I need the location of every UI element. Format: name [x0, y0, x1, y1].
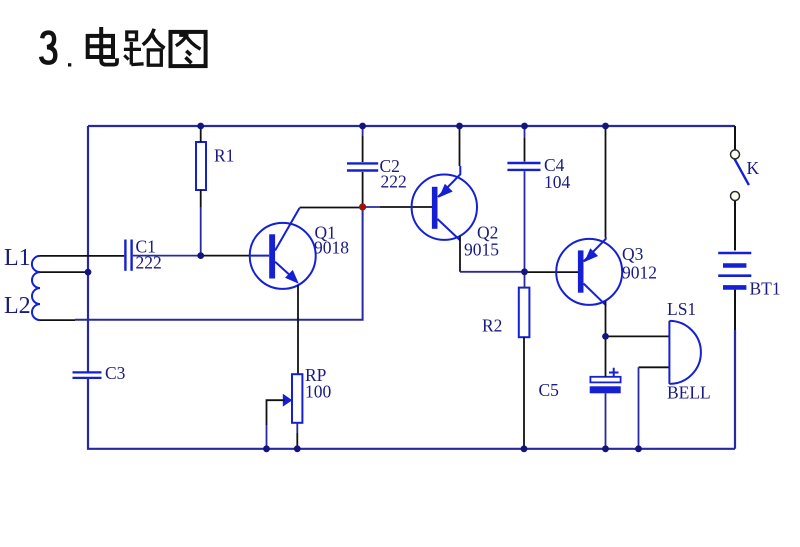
junction node: C4 top: [521, 123, 528, 130]
label R1: [214, 146, 234, 166]
label Q1: [315, 223, 336, 243]
junction node D: Q3 collector/C5/bell: [602, 333, 609, 340]
label Q2 value 9015: [464, 240, 499, 260]
wire: bell lower lead: [639, 367, 670, 449]
wire: RP bottom lead: [296, 423, 298, 449]
svg-text:9015: 9015: [464, 240, 499, 260]
capacitor C1: [125, 240, 131, 271]
svg-text:Q3: Q3: [622, 244, 644, 264]
wire: L1 top to C1: [40, 255, 124, 257]
svg-text:C5: C5: [539, 380, 560, 400]
wire: switch to battery lead: [734, 201, 736, 251]
label C4 value 104: [544, 172, 571, 192]
speaker LS1 bell: [669, 321, 701, 384]
label RP value 100: [305, 382, 332, 402]
label C1: [136, 237, 156, 257]
label Q3: [622, 244, 644, 264]
wire: RP wiper: [267, 400, 285, 449]
capacitor C5 electrolytic: [590, 368, 621, 394]
wire: Q2 collector down: [459, 236, 461, 272]
wire: Q2 emitter up to rail: [459, 126, 461, 166]
svg-text:222: 222: [136, 253, 162, 273]
junction node: Q3 emitter rail: [602, 123, 609, 130]
svg-text:BELL: BELL: [667, 383, 711, 403]
junction node: bell bottom: [635, 445, 642, 452]
label R2: [482, 316, 502, 336]
svg-text:222: 222: [381, 172, 407, 192]
title hanzi 路: [124, 29, 165, 65]
wire: C2 top lead: [362, 126, 364, 162]
potentiometer RP: [283, 374, 303, 423]
title hanzi 图: [171, 32, 206, 66]
junction node C: Q2 collector/R2/Q3 base: [521, 268, 528, 275]
svg-text:L2: L2: [4, 293, 31, 319]
label BELL: [667, 383, 711, 403]
junction node: RP wiper bottom: [263, 445, 270, 452]
capacitor C2: [347, 163, 378, 170]
svg-text:100: 100: [305, 382, 332, 402]
capacitor C3: [73, 372, 102, 378]
inductor L2: [32, 272, 40, 320]
transistor Q2: [412, 166, 477, 241]
wire: L1/L2 tap to left rail: [40, 271, 88, 273]
wire: top rail: [88, 125, 735, 127]
wire: left rail lower (below C3): [88, 377, 735, 449]
inductor L1: [32, 256, 40, 272]
junction node B: maroon dot C2/Q1/Q2: [359, 203, 366, 210]
wire: battery bottom lead: [734, 290, 736, 330]
wire: C1 to node A: [133, 255, 201, 257]
capacitor C4: [507, 163, 540, 170]
wire: R1 bottom lead: [200, 190, 202, 256]
svg-text:LS1: LS1: [667, 299, 696, 319]
wire: R2 top lead: [524, 272, 526, 288]
label Q1 value 9018: [314, 238, 349, 258]
wire: node C to Q3 base: [525, 271, 579, 273]
transistor Q1: [250, 208, 316, 289]
wire: node D to bell: [606, 335, 669, 337]
svg-text:C3: C3: [105, 363, 126, 383]
resistor R1: [196, 142, 206, 190]
junction node A: C1/R1/Q1 base: [197, 252, 204, 259]
label L1: [4, 245, 31, 271]
label C3: [105, 363, 126, 383]
label K: [747, 158, 760, 178]
wire: C2 bottom lead: [362, 172, 364, 206]
resistor R2: [519, 288, 530, 338]
junction node: coil tap on left rail: [85, 269, 92, 276]
wire: C5 bottom lead: [605, 393, 607, 449]
wire: Q1 emitter down to RP: [297, 285, 299, 374]
svg-text:BT1: BT1: [750, 279, 781, 299]
junction node: R1 top: [197, 123, 204, 130]
label BT1: [750, 279, 781, 299]
wire: C4 top lead: [524, 126, 526, 162]
svg-text:R1: R1: [214, 146, 234, 166]
label Q3 value 9012: [622, 263, 657, 283]
wire: left rail: [87, 126, 89, 373]
junction node: R2 bottom: [521, 445, 528, 452]
wire: L2 bottom feedback wire: [40, 208, 363, 320]
transistor Q3: [556, 237, 622, 305]
wire: R1 top lead: [200, 126, 202, 142]
label C4: [544, 155, 565, 175]
wire: right rail: [734, 330, 736, 449]
wire: R2 bottom lead: [523, 337, 525, 449]
wire: Q1 collector to node B: [300, 207, 363, 209]
wire: C5 top lead: [605, 336, 607, 376]
label L2: [4, 293, 31, 319]
wire: node A to Q1 base: [201, 255, 250, 257]
wire: switch top lead: [734, 126, 736, 150]
switch K: [731, 150, 749, 201]
label C2 value 222: [381, 172, 407, 192]
svg-text:L1: L1: [4, 245, 31, 271]
label Q2: [477, 223, 498, 243]
wire: Q2 collector to node C: [460, 271, 525, 273]
junction node: C2 top: [359, 123, 366, 130]
svg-text:104: 104: [544, 172, 571, 192]
svg-text:9018: 9018: [314, 238, 349, 258]
battery BT1: [718, 253, 751, 287]
label RP: [305, 365, 327, 385]
svg-text:K: K: [747, 158, 760, 178]
title number 3.: [41, 33, 71, 67]
junction node: Q2 emitter rail: [456, 123, 463, 130]
svg-text:R2: R2: [482, 316, 502, 336]
wire: C4 bottom lead: [524, 171, 526, 272]
label C2: [380, 156, 400, 176]
title hanzi 电: [86, 27, 117, 65]
label C5: [539, 380, 560, 400]
wire: node B to Q2 base: [363, 206, 432, 208]
junction node: RP bottom: [294, 445, 301, 452]
svg-text:9012: 9012: [622, 263, 657, 283]
wire: Q3 emitter up to rail: [605, 126, 607, 237]
wire: Q3 collector down to node D: [605, 301, 607, 336]
label LS1: [667, 299, 696, 319]
label C1 value 222: [136, 253, 162, 273]
junction node: C5 bottom: [602, 445, 609, 452]
